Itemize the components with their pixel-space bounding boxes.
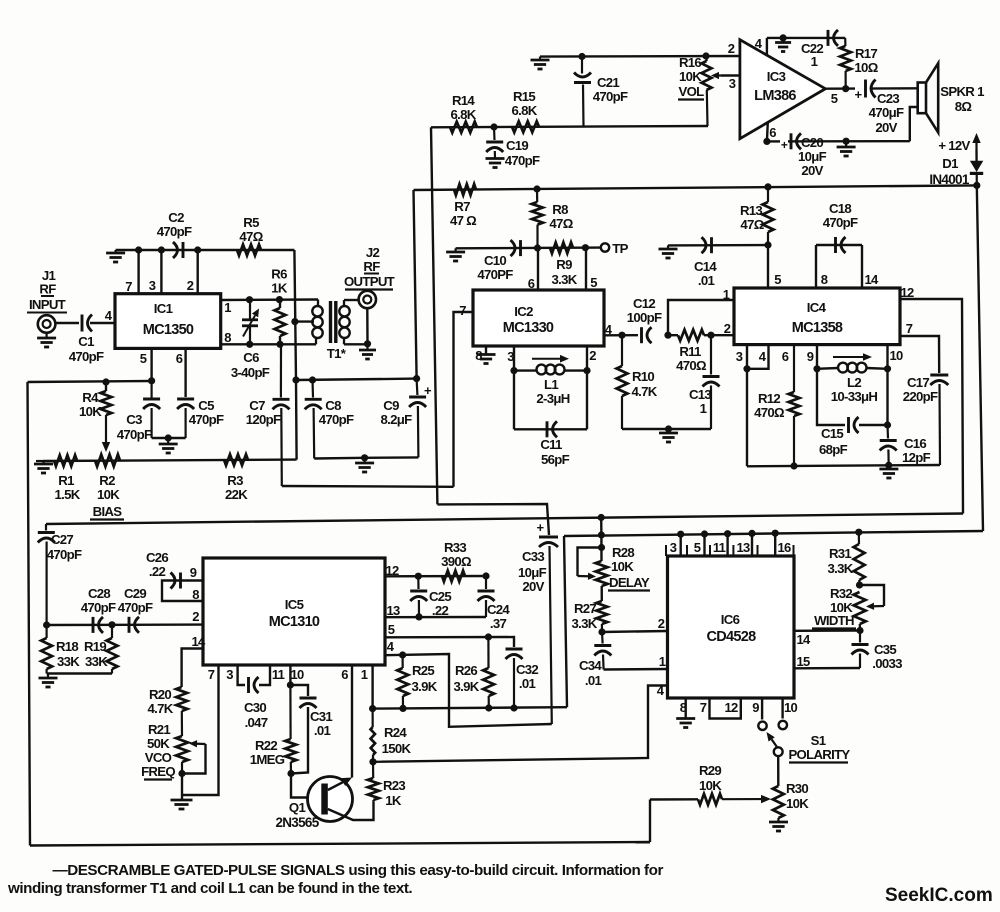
svg-text:6.8K: 6.8K bbox=[511, 103, 537, 118]
svg-text:C10: C10 bbox=[484, 253, 506, 268]
svg-text:9: 9 bbox=[752, 700, 759, 715]
op-amp IC1 box MC1350 bbox=[115, 294, 221, 349]
arrow +12V bbox=[975, 143, 977, 162]
svg-text:TP: TP bbox=[612, 241, 628, 256]
svg-text:470PF: 470PF bbox=[477, 267, 513, 282]
capacitor C35 bbox=[859, 631, 861, 643]
svg-text:22K: 22K bbox=[225, 487, 248, 502]
capacitor C9 (polarized) bbox=[416, 379, 419, 395]
svg-text:7: 7 bbox=[906, 321, 913, 336]
junction pin10/C31 bbox=[287, 681, 294, 688]
capacitor C7 bbox=[280, 344, 282, 397]
capacitor C17 bbox=[930, 374, 948, 377]
junction R8 top bbox=[533, 185, 540, 192]
wire IC2 pin 8 stub bbox=[485, 346, 487, 355]
svg-text:R30: R30 bbox=[786, 781, 808, 796]
wire C12 junction up to pin1 wire bbox=[668, 300, 734, 335]
capacitor C16 bbox=[886, 425, 889, 439]
svg-text:1: 1 bbox=[811, 54, 818, 69]
wiper arrow R4 to R2 bbox=[105, 415, 107, 442]
capacitor C1 bbox=[81, 315, 84, 332]
svg-text:VOL: VOL bbox=[678, 84, 704, 99]
svg-text:R29: R29 bbox=[699, 763, 721, 778]
junction pin5/C3 bbox=[148, 377, 155, 384]
capacitor C25 bbox=[417, 576, 419, 589]
wire IC2 pin 7 bbox=[454, 312, 474, 487]
svg-text:47Ω: 47Ω bbox=[239, 229, 263, 244]
svg-text:10K: 10K bbox=[79, 404, 102, 419]
capacitor C11 bbox=[546, 421, 549, 437]
wire IC5 pin 3 stub bbox=[238, 665, 245, 685]
op-amp IC4 box MC1358 bbox=[734, 288, 900, 345]
svg-text:47 Ω: 47 Ω bbox=[450, 213, 477, 228]
ground (R30) bbox=[769, 821, 788, 824]
svg-text:R21: R21 bbox=[148, 722, 170, 737]
svg-text:3: 3 bbox=[670, 540, 677, 555]
svg-text:C9: C9 bbox=[383, 398, 399, 413]
wire IC4 pin 14 stub bbox=[861, 245, 863, 288]
svg-text:2: 2 bbox=[187, 278, 194, 293]
svg-text:10: 10 bbox=[784, 700, 798, 715]
ground (J2) bbox=[366, 344, 368, 350]
junction R28 wiper node bbox=[598, 544, 605, 551]
svg-text:10K: 10K bbox=[611, 559, 634, 574]
wire IC5 pin 2 row bbox=[47, 623, 203, 626]
wire R22 to Q1 base bbox=[291, 774, 321, 798]
svg-text:1: 1 bbox=[700, 401, 707, 416]
svg-text:1: 1 bbox=[659, 654, 666, 669]
svg-text:3: 3 bbox=[736, 349, 743, 364]
svg-text:14: 14 bbox=[864, 272, 879, 287]
svg-text:+: + bbox=[537, 520, 545, 535]
resistor R25 bbox=[402, 655, 404, 668]
svg-text:winding transformer T1 and coi: winding transformer T1 and coil L1 can b… bbox=[7, 880, 412, 897]
wire section3 bottom rail bbox=[373, 707, 567, 708]
svg-text:2: 2 bbox=[658, 616, 665, 631]
svg-text:LM386: LM386 bbox=[754, 88, 796, 104]
capacitor C10 bbox=[519, 240, 522, 256]
svg-text:MC1358: MC1358 bbox=[792, 320, 843, 336]
junction C9 top / R7 branch bbox=[413, 375, 420, 382]
ground (LM386 pin 4) bbox=[782, 38, 784, 43]
svg-text:5: 5 bbox=[388, 622, 395, 637]
junction L2 right bbox=[884, 365, 891, 372]
resistor R29 bbox=[698, 794, 722, 805]
junction bias/T1-tap vertical top bbox=[292, 376, 299, 383]
junction R4 top bbox=[102, 378, 109, 385]
junction L1 right bbox=[583, 367, 590, 374]
svg-text:R14: R14 bbox=[452, 93, 475, 108]
op-amp IC3 LM386 bbox=[740, 40, 826, 139]
junction R17 bottom bbox=[842, 85, 849, 92]
junction C6 top bbox=[246, 296, 253, 303]
svg-text:MC1350: MC1350 bbox=[143, 322, 194, 338]
svg-text:20V: 20V bbox=[875, 120, 897, 135]
capacitor C13 bbox=[710, 335, 712, 374]
svg-text:470pF: 470pF bbox=[69, 349, 104, 364]
junction R28 on line A bbox=[598, 514, 605, 521]
svg-text:470pF: 470pF bbox=[47, 547, 82, 562]
svg-text:R11: R11 bbox=[679, 344, 701, 359]
svg-text:R7: R7 bbox=[454, 199, 470, 214]
svg-text:8.2μF: 8.2μF bbox=[381, 412, 413, 427]
svg-text:2: 2 bbox=[589, 348, 596, 363]
svg-text:C34: C34 bbox=[579, 658, 602, 673]
svg-text:WIDTH: WIDTH bbox=[814, 613, 854, 628]
capacitor C31 bbox=[290, 685, 308, 696]
capacitor C14 bbox=[710, 237, 713, 253]
svg-text:100pF: 100pF bbox=[627, 310, 662, 325]
resistor R22 bbox=[289, 685, 291, 739]
wire IC4 pin 10 stub bbox=[886, 345, 888, 369]
svg-text:10-33μH: 10-33μH bbox=[831, 389, 878, 404]
transformer T1 primary winding bbox=[317, 300, 319, 307]
junction L2 left bbox=[813, 365, 820, 372]
svg-text:C33: C33 bbox=[522, 549, 544, 564]
junction C16 bottom bbox=[885, 462, 892, 469]
resistor R13 bbox=[767, 187, 769, 202]
svg-text:470μF: 470μF bbox=[869, 105, 904, 120]
wire bias to pin5 bbox=[28, 381, 152, 382]
junction C25 top bbox=[415, 573, 422, 580]
capacitor C12 bbox=[640, 327, 643, 343]
svg-text:L1: L1 bbox=[544, 377, 558, 392]
junction pin 3 (IC6) bbox=[677, 531, 684, 538]
wire T1 secondary bottom bbox=[344, 343, 368, 345]
resistor R18 bbox=[45, 625, 47, 638]
diode D1 bbox=[970, 161, 983, 172]
wire IC6 pin 5 stub bbox=[703, 534, 705, 556]
svg-text:3: 3 bbox=[226, 667, 233, 682]
inductor L1 bbox=[514, 369, 537, 371]
wire IC4 pin 4 loop bbox=[747, 345, 769, 369]
svg-text:R24: R24 bbox=[384, 725, 407, 740]
svg-text:470pF: 470pF bbox=[505, 153, 540, 168]
svg-text:R16: R16 bbox=[679, 55, 701, 70]
wire L2 left down to C15 bbox=[817, 369, 845, 425]
junction R32/C35 bbox=[856, 627, 863, 634]
svg-text:R18: R18 bbox=[56, 639, 78, 654]
resistor R23 bbox=[372, 762, 374, 778]
inductor L2 bbox=[817, 367, 838, 370]
junction pin 13 (IC6) bbox=[748, 530, 755, 537]
junction R21 bottom bbox=[178, 770, 185, 777]
svg-text:MC1330: MC1330 bbox=[503, 320, 554, 336]
wire IC2 pin 3 stub bbox=[513, 346, 515, 371]
wire bottom rail riser bbox=[649, 800, 651, 843]
wire L1 left down bbox=[513, 371, 515, 430]
svg-text:20V: 20V bbox=[801, 163, 823, 178]
svg-text:R10: R10 bbox=[632, 369, 654, 384]
svg-text:13: 13 bbox=[386, 603, 400, 618]
ground (R16 wire left) bbox=[539, 57, 541, 60]
wire IC6 pin 8 stub bbox=[685, 698, 687, 719]
svg-text:C21: C21 bbox=[597, 75, 619, 90]
transformer T1 center tap bbox=[295, 320, 314, 322]
svg-text:C19: C19 bbox=[506, 138, 528, 153]
svg-text:+: + bbox=[781, 138, 788, 152]
resistor R31 bbox=[858, 532, 860, 544]
svg-text:8: 8 bbox=[224, 330, 231, 345]
svg-text:1: 1 bbox=[361, 667, 368, 682]
wire C3/C5 common bbox=[152, 437, 186, 439]
ground (C19) bbox=[486, 157, 505, 160]
svg-text:1K: 1K bbox=[271, 281, 288, 296]
junction R13 top bbox=[764, 183, 771, 190]
svg-text:10μF: 10μF bbox=[798, 149, 827, 164]
transformer T1 secondary winding bbox=[343, 300, 345, 306]
junction R16 top bbox=[702, 52, 709, 59]
svg-text:RF: RF bbox=[363, 259, 380, 274]
svg-text:.0033: .0033 bbox=[872, 656, 902, 671]
capacitor C23 (polarized) bbox=[855, 80, 872, 97]
svg-text:C26: C26 bbox=[146, 550, 168, 565]
wire IC4 pin 5 stub bbox=[767, 245, 769, 288]
svg-text:6: 6 bbox=[782, 349, 789, 364]
ground (IC6 pin 8) bbox=[676, 717, 695, 720]
svg-text:C8: C8 bbox=[325, 398, 341, 413]
resistor R24 bbox=[372, 709, 374, 727]
ground (R18) bbox=[47, 674, 49, 679]
wire IC5 pin 1 stub bbox=[371, 665, 373, 709]
resistor R12 bbox=[793, 345, 795, 392]
svg-text:IC2: IC2 bbox=[514, 304, 533, 319]
wire left border bbox=[28, 382, 31, 846]
junction pin 5 (IC6) bbox=[701, 530, 708, 537]
svg-text:C1: C1 bbox=[78, 334, 94, 349]
svg-text:C29: C29 bbox=[124, 586, 146, 601]
svg-text:5: 5 bbox=[831, 91, 838, 106]
wire IC1 top rail bbox=[116, 249, 295, 251]
svg-text:C23: C23 bbox=[877, 91, 899, 106]
wiper R21 bracket bbox=[182, 744, 206, 774]
svg-text:5: 5 bbox=[774, 272, 781, 287]
junction pin3/pin4 (IC4) bbox=[743, 365, 750, 372]
wire R28 branch vertical bbox=[600, 518, 603, 536]
svg-text:R33: R33 bbox=[444, 540, 466, 555]
resistor R27 bbox=[596, 601, 607, 624]
switch S1 lever bbox=[772, 739, 778, 747]
svg-text:DELAY: DELAY bbox=[609, 575, 650, 590]
svg-text:.01: .01 bbox=[314, 723, 331, 738]
svg-text:R27: R27 bbox=[574, 601, 596, 616]
junction R12 bottom bbox=[790, 462, 797, 469]
potentiometer R21 bbox=[176, 736, 188, 762]
capacitor C32 bbox=[506, 648, 523, 651]
svg-text:10Ω: 10Ω bbox=[854, 60, 878, 75]
resistor R17 bbox=[844, 38, 846, 46]
wire pin 6 / C5 stub bbox=[184, 348, 186, 397]
svg-text:1.5K: 1.5K bbox=[54, 487, 80, 502]
junction R13 bottom / pin5 bbox=[764, 241, 771, 248]
svg-text:+: + bbox=[855, 87, 863, 102]
svg-text:10K: 10K bbox=[679, 69, 702, 84]
switch S1 contact 10 bbox=[779, 721, 787, 729]
resistor R11 bbox=[668, 334, 678, 336]
svg-text:C27: C27 bbox=[51, 532, 73, 547]
junction pin 6 bbox=[763, 138, 770, 145]
junction C12/R10/R11 bbox=[664, 332, 671, 339]
junction R8 bottom / pin6 bbox=[534, 244, 541, 251]
svg-text:470pF: 470pF bbox=[118, 600, 153, 615]
junction R25 top bbox=[399, 651, 406, 658]
svg-text:C14: C14 bbox=[694, 259, 717, 274]
svg-text:.01: .01 bbox=[698, 273, 715, 288]
ground (C14 left) bbox=[667, 245, 669, 249]
svg-text:3: 3 bbox=[729, 76, 736, 91]
wire R18/R19 bottom bbox=[47, 672, 112, 674]
svg-text:7: 7 bbox=[459, 303, 466, 318]
junction R24/R23 bbox=[369, 758, 376, 765]
wire IC5 pin 12 row bbox=[385, 575, 486, 578]
wire IC5 pin 5 row bbox=[385, 637, 514, 647]
svg-text:6: 6 bbox=[341, 667, 348, 682]
wire R24 row to IC6 pin 4 bbox=[373, 686, 668, 762]
svg-text:8Ω: 8Ω bbox=[955, 99, 973, 114]
transformer T1 core bbox=[329, 301, 332, 343]
svg-text:+: + bbox=[424, 383, 432, 398]
junction C3/C5 ground bbox=[165, 434, 172, 441]
svg-text:2: 2 bbox=[724, 321, 731, 336]
svg-text:4.7K: 4.7K bbox=[631, 384, 657, 399]
svg-text:—DESCRAMBLE GATED-PULSE SIGNAL: —DESCRAMBLE GATED-PULSE SIGNALS using th… bbox=[53, 862, 664, 879]
svg-text:470pF: 470pF bbox=[81, 600, 116, 615]
svg-text:R4: R4 bbox=[82, 390, 99, 405]
junction C32 bottom bbox=[510, 704, 517, 711]
junction C8 top bbox=[309, 376, 316, 383]
ground (R21) bbox=[171, 799, 193, 802]
junction R10 row ground bbox=[665, 425, 672, 432]
connector J2 bbox=[359, 291, 376, 308]
test point TP bbox=[601, 243, 609, 251]
ground (J1) bbox=[45, 333, 47, 338]
svg-text:2N3565: 2N3565 bbox=[275, 815, 319, 830]
svg-text:CD4528: CD4528 bbox=[707, 629, 757, 645]
wire C18 row bbox=[816, 244, 862, 246]
svg-text:5: 5 bbox=[140, 351, 147, 366]
junction C27/R18/C28 bbox=[43, 621, 50, 628]
svg-text:T1*: T1* bbox=[327, 346, 347, 361]
potentiometer R16 bbox=[705, 56, 707, 61]
junction R26 top bbox=[485, 633, 492, 640]
wire pin 8 to T1 primary bottom bbox=[221, 343, 316, 345]
wire R10/C13 bottom row bbox=[622, 428, 711, 430]
switch S1 common bbox=[774, 747, 783, 756]
wire IC4 pin 7 to C17 bbox=[900, 336, 939, 373]
svg-text:R3: R3 bbox=[227, 473, 243, 488]
svg-text:14: 14 bbox=[796, 632, 811, 647]
resistor R3 bbox=[224, 454, 248, 465]
svg-text:INPUT: INPUT bbox=[29, 297, 66, 312]
junction C16 top bbox=[884, 421, 891, 428]
svg-text:220pF: 220pF bbox=[903, 389, 938, 404]
svg-text:IC1: IC1 bbox=[154, 301, 173, 316]
svg-text:12: 12 bbox=[724, 700, 738, 715]
svg-text:C17: C17 bbox=[907, 375, 929, 390]
svg-text:.22: .22 bbox=[432, 603, 449, 618]
capacitor C34 bbox=[601, 632, 604, 644]
svg-text:11: 11 bbox=[713, 540, 726, 555]
svg-text:C6: C6 bbox=[243, 350, 259, 365]
transistor Q1 2N3565 bbox=[308, 777, 353, 822]
svg-text:1: 1 bbox=[723, 287, 730, 302]
wire bottom rail bbox=[30, 842, 650, 846]
svg-text:470pF: 470pF bbox=[117, 427, 152, 442]
svg-text:3: 3 bbox=[149, 278, 156, 293]
svg-text:10K: 10K bbox=[786, 796, 809, 811]
svg-text:470pF: 470pF bbox=[189, 412, 224, 427]
wire IC6 pin 2 row bbox=[602, 631, 668, 632]
wire output node y380 bbox=[296, 379, 417, 380]
wire +12V top rail bbox=[414, 185, 977, 190]
wire pin3 down to bottom rail bbox=[746, 369, 748, 467]
svg-text:47Ω: 47Ω bbox=[740, 217, 764, 232]
junction R26 bottom bbox=[485, 704, 492, 711]
wire R29 row bbox=[650, 798, 698, 801]
wire pin10 down bbox=[886, 369, 888, 425]
wire R21 to ground bbox=[181, 774, 183, 801]
svg-text:3-40pF: 3-40pF bbox=[231, 365, 270, 380]
wire IC6 pin 3 stub bbox=[680, 534, 682, 556]
wire pin6/C20 rail bbox=[767, 140, 910, 143]
wire C11 row bbox=[514, 428, 587, 430]
junction C20 ground bbox=[843, 138, 850, 145]
svg-text:.22: .22 bbox=[149, 564, 166, 579]
resistor R6 bbox=[279, 300, 281, 308]
svg-text:3.9K: 3.9K bbox=[453, 679, 479, 694]
svg-text:3.3K: 3.3K bbox=[827, 561, 853, 576]
svg-text:10K: 10K bbox=[97, 487, 120, 502]
junction R6 top bbox=[276, 296, 283, 303]
junction R22/C31 bottom bbox=[287, 770, 294, 777]
wire IC2 pin 6 stub bbox=[537, 248, 539, 290]
wire R28-R27 bbox=[601, 586, 603, 601]
svg-text:10μF: 10μF bbox=[518, 565, 547, 580]
svg-text:68pF: 68pF bbox=[819, 442, 848, 457]
svg-text:C18: C18 bbox=[829, 201, 851, 216]
svg-text:.047: .047 bbox=[245, 715, 268, 730]
wire pin 2 stub bbox=[196, 250, 198, 294]
resistor R15 bbox=[512, 121, 539, 132]
wire IC2 pin 5 stub bbox=[585, 248, 587, 290]
svg-text:C32: C32 bbox=[516, 662, 538, 677]
capacitor C15 bbox=[847, 417, 850, 433]
svg-text:C28: C28 bbox=[88, 586, 110, 601]
resistor R7 bbox=[454, 184, 476, 195]
junction pin 11 (IC6) bbox=[724, 530, 731, 537]
svg-text:BIAS: BIAS bbox=[93, 504, 123, 519]
svg-text:470Ω: 470Ω bbox=[754, 405, 785, 420]
svg-text:1MEG: 1MEG bbox=[250, 752, 285, 767]
junction C25 bottom bbox=[415, 613, 422, 620]
wire C15 to pin10 vert bbox=[859, 424, 888, 426]
wire C7 bottom to IC2 pin7 vert bbox=[282, 485, 454, 488]
wire C8/C9 bottom loop bbox=[314, 457, 418, 458]
svg-text:9: 9 bbox=[190, 565, 197, 580]
pin cell ticks IC6 top bbox=[665, 545, 667, 556]
ground (C20) bbox=[845, 141, 847, 147]
ground (IC1 top-left) bbox=[114, 250, 116, 253]
junction C8 loop ground bbox=[361, 454, 368, 461]
wiper R32 bracket bbox=[860, 585, 885, 606]
svg-text:6.8K: 6.8K bbox=[450, 107, 476, 122]
svg-text:C2: C2 bbox=[168, 210, 184, 225]
svg-text:390Ω: 390Ω bbox=[441, 554, 472, 569]
junction R31 top bbox=[855, 529, 862, 536]
ground (bias rail left) bbox=[36, 460, 44, 462]
wire IC6 pin 9 stub bbox=[761, 698, 763, 720]
svg-text:OUTPUT: OUTPUT bbox=[344, 274, 395, 289]
